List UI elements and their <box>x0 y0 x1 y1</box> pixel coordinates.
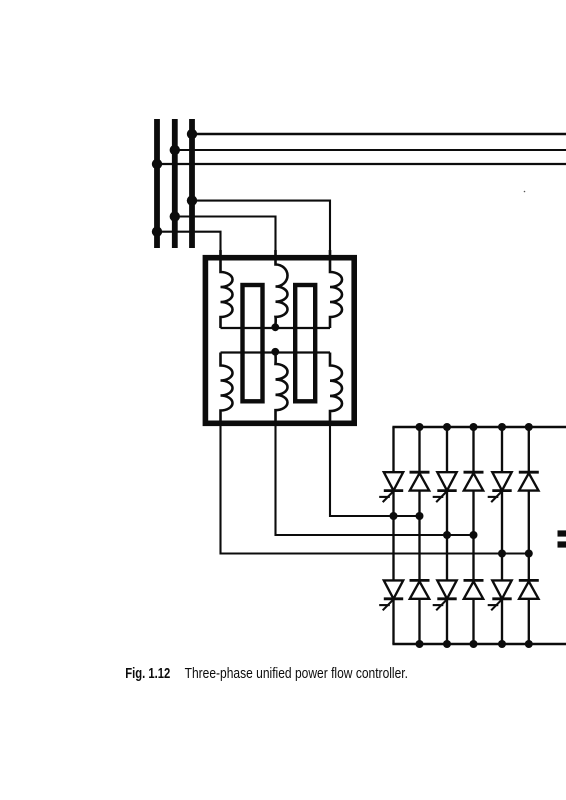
svg-text:Fig. 1.12: Fig. 1.12 <box>125 665 170 682</box>
svg-text:Three-phase unified power flow: Three-phase unified power flow controlle… <box>185 666 408 682</box>
